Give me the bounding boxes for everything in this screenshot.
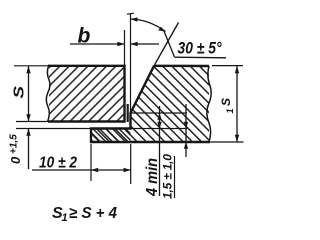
svg-text:10 ± 2: 10 ± 2 [39,155,77,172]
extension line from ledge top level [131,128,188,130]
dimension 4 min (depth from root to ledge) [144,106,162,197]
bottom edge extension line to S1 dimension [210,141,244,143]
svg-text:4 min: 4 min [144,158,161,197]
angle dimension 30 +/- 5 deg: arc with arrows [131,17,166,31]
extension line from bevel root level [131,112,187,114]
svg-text:1,5 ± 1,0: 1,5 ± 1,0 [161,154,175,199]
dimension S (left plate thickness) [11,66,31,122]
svg-text:30 ± 5°: 30 ± 5° [178,39,222,58]
b extension line right / angle vertex reference [130,14,132,121]
dimension 0+1.5 (gap below left plate) [8,129,91,170]
dimension 10±2 (ledge overlap) [32,144,131,184]
top edge extension line to S1 dimension [212,65,243,67]
angle label 30 +/- 5 with underline [175,39,227,58]
root gap lower dark merge (scan blob) [127,104,129,122]
bevel edge extension above plate [154,23,179,66]
b extension line left [124,30,126,66]
left plate bottom edge extension line [16,121,50,123]
leader line to angle label [164,30,175,57]
dimension S1 (right plate thickness) [219,66,239,142]
dimension b (root gap) label and leader [70,25,159,48]
svg-text:+1,5: +1,5 [9,134,20,154]
right plate S1 with integral ledge (hatched body) [91,66,209,142]
right plate outline: top edge, bevel, root face, ledge, bottom [91,66,211,142]
svg-text:1: 1 [62,212,68,224]
dimension 1,5±1,0 (ledge thickness) [161,104,189,199]
svg-text:S: S [219,98,233,106]
left plate outline [46,66,124,122]
svg-text:1: 1 [225,108,235,113]
svg-text:≥ S + 4: ≥ S + 4 [69,205,117,222]
left plate top edge extension line [14,65,50,67]
formula S1 >= S+4 [52,205,117,224]
svg-text:S: S [11,86,28,99]
left plate S (hatched body) [49,66,125,122]
svg-text:0: 0 [8,156,23,164]
